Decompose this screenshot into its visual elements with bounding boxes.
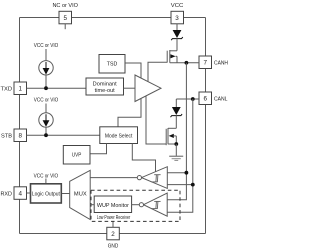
Dominant time-out block — [86, 78, 124, 95]
pin 5 NC or VIO — [52, 3, 78, 29]
wire Q2 source to ground — [175, 144, 177, 156]
svg-text:1: 1 — [18, 86, 22, 93]
TSD block — [99, 55, 125, 74]
pin 3 VCC — [171, 3, 184, 24]
WUP Monitor block — [94, 196, 131, 213]
svg-text:7: 7 — [203, 60, 207, 67]
svg-text:GND: GND — [108, 244, 119, 250]
svg-text:WUP Monitor: WUP Monitor — [97, 203, 129, 209]
MUX — [70, 170, 91, 219]
wire low power receiver to WUP Monitor — [132, 204, 140, 206]
wire Mode Select to driver — [118, 98, 141, 127]
wire driver to NMOS gate — [146, 96, 166, 144]
IC boundary left border — [19, 18, 21, 83]
op-amp driver U1 — [135, 75, 161, 102]
transistor Q1 (high-side PMOS) — [167, 50, 177, 63]
svg-text:6: 6 — [203, 96, 207, 103]
zener diode D1 — [171, 24, 183, 51]
wire MUX to Logic Output — [62, 193, 70, 195]
IC boundary bottom border — [20, 233, 107, 235]
svg-text:Low Power Receiver: Low Power Receiver — [97, 215, 131, 221]
svg-text:RXD: RXD — [1, 191, 13, 197]
pin 6 CANL — [199, 92, 228, 105]
svg-text:NC or VIO: NC or VIO — [52, 3, 78, 9]
wire RXD to Logic Output — [27, 192, 31, 194]
wire CANL — [176, 98, 199, 100]
wire CANH — [170, 62, 199, 64]
UVP block — [63, 146, 90, 165]
svg-text:TXD: TXD — [1, 87, 13, 93]
wire TSD to driver — [125, 63, 141, 78]
svg-text:Dominant: Dominant — [93, 82, 117, 88]
node CANL receiver tap — [191, 183, 195, 187]
svg-text:VCC or VIO: VCC or VIO — [34, 98, 59, 104]
svg-text:3: 3 — [175, 15, 179, 22]
wire WUP Monitor to MUX — [90, 204, 94, 206]
svg-text:UVP: UVP — [72, 153, 82, 159]
svg-text:VCC: VCC — [171, 3, 184, 9]
wire receiver output to MUX — [90, 177, 137, 179]
svg-text:8: 8 — [18, 133, 22, 140]
wire receiver input from CANL — [167, 184, 193, 186]
node CANH receiver tap — [185, 171, 189, 175]
wire receiver input from CANH — [167, 172, 186, 174]
svg-text:Logic Output: Logic Output — [32, 191, 60, 197]
Logic Output block — [31, 173, 62, 203]
Mode Select block — [100, 127, 138, 144]
svg-text:5: 5 — [63, 15, 67, 22]
node STB junction — [44, 133, 48, 137]
current source I1 (TXD pull-up) — [34, 43, 59, 88]
svg-text:Mode Select: Mode Select — [105, 134, 133, 140]
Low Power Receiver dashed box — [91, 190, 180, 221]
node CANH junction — [185, 61, 189, 65]
svg-text:2: 2 — [111, 231, 115, 238]
node CANL junction — [191, 97, 195, 101]
low power receiver comparator — [139, 193, 167, 216]
ground — [169, 156, 183, 160]
pin 2 GND — [107, 221, 120, 249]
wire STB to Mode Select — [27, 134, 100, 136]
pin 7 CANH — [199, 56, 228, 69]
wire CANH to receivers — [167, 63, 186, 200]
pin 1 TXD — [1, 82, 27, 95]
svg-text:MUX: MUX — [74, 191, 87, 197]
node TXD junction — [44, 86, 48, 90]
IC boundary top border — [20, 17, 60, 19]
svg-text:VCC or VIO: VCC or VIO — [34, 173, 59, 179]
svg-text:VCC or VIO: VCC or VIO — [34, 43, 59, 49]
pin 8 STB — [1, 129, 27, 142]
wire TXD to Dominant time-out — [27, 87, 87, 89]
pin 4 RXD — [1, 187, 27, 200]
svg-text:CANH: CANH — [214, 61, 228, 67]
transistor Q2 (low-side NMOS) — [166, 128, 176, 145]
svg-text:STB: STB — [1, 134, 12, 140]
IC boundary right border — [205, 18, 207, 57]
wire driver to PMOS gate — [148, 62, 167, 81]
node Q2 source junction — [174, 142, 178, 146]
receiver comparator (normal mode) — [137, 167, 167, 189]
svg-text:TSD: TSD — [107, 62, 118, 68]
wire CANL to receivers — [167, 99, 193, 212]
zener diode D2 — [171, 99, 183, 128]
wire UVP to Mode Select — [90, 144, 107, 154]
svg-text:time-out: time-out — [95, 88, 115, 94]
wire Mode Select to receiver enable — [132, 144, 155, 172]
wire Dominant time-out to driver — [124, 87, 136, 89]
current source I2 (STB pull-up) — [34, 98, 59, 136]
svg-text:4: 4 — [18, 190, 22, 197]
svg-text:CANL: CANL — [214, 97, 228, 103]
